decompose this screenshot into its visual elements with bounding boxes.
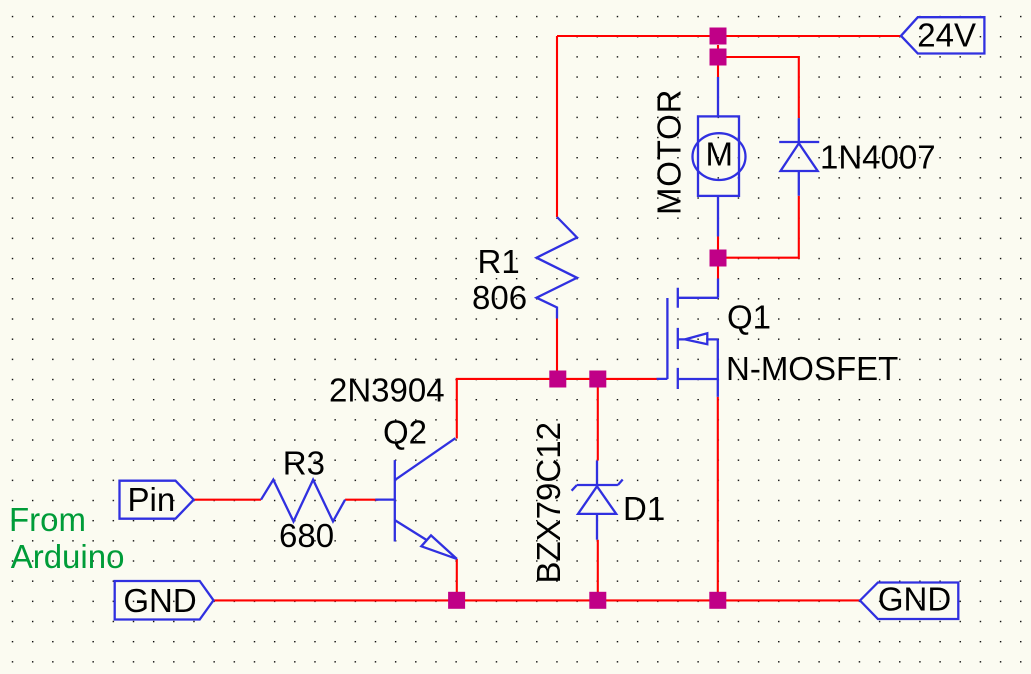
svg-text:Q2: Q2 <box>383 413 427 450</box>
svg-text:Pin: Pin <box>128 481 176 518</box>
svg-text:806: 806 <box>472 279 527 316</box>
svg-text:D1: D1 <box>623 490 665 527</box>
svg-text:BZX79C12: BZX79C12 <box>530 422 567 583</box>
svg-text:680: 680 <box>279 517 334 554</box>
svg-text:1N4007: 1N4007 <box>820 139 936 176</box>
svg-text:24V: 24V <box>917 16 976 53</box>
svg-text:From: From <box>9 501 86 538</box>
svg-text:MOTOR: MOTOR <box>651 89 688 215</box>
svg-text:N-MOSFET: N-MOSFET <box>726 350 898 387</box>
svg-text:GND: GND <box>123 582 196 619</box>
svg-text:Arduino: Arduino <box>11 538 125 575</box>
svg-text:Q1: Q1 <box>727 299 771 336</box>
svg-text:GND: GND <box>878 581 951 618</box>
svg-text:R3: R3 <box>283 445 325 482</box>
svg-text:R1: R1 <box>478 243 520 280</box>
svg-text:M: M <box>706 136 734 173</box>
svg-text:2N3904: 2N3904 <box>329 372 445 409</box>
